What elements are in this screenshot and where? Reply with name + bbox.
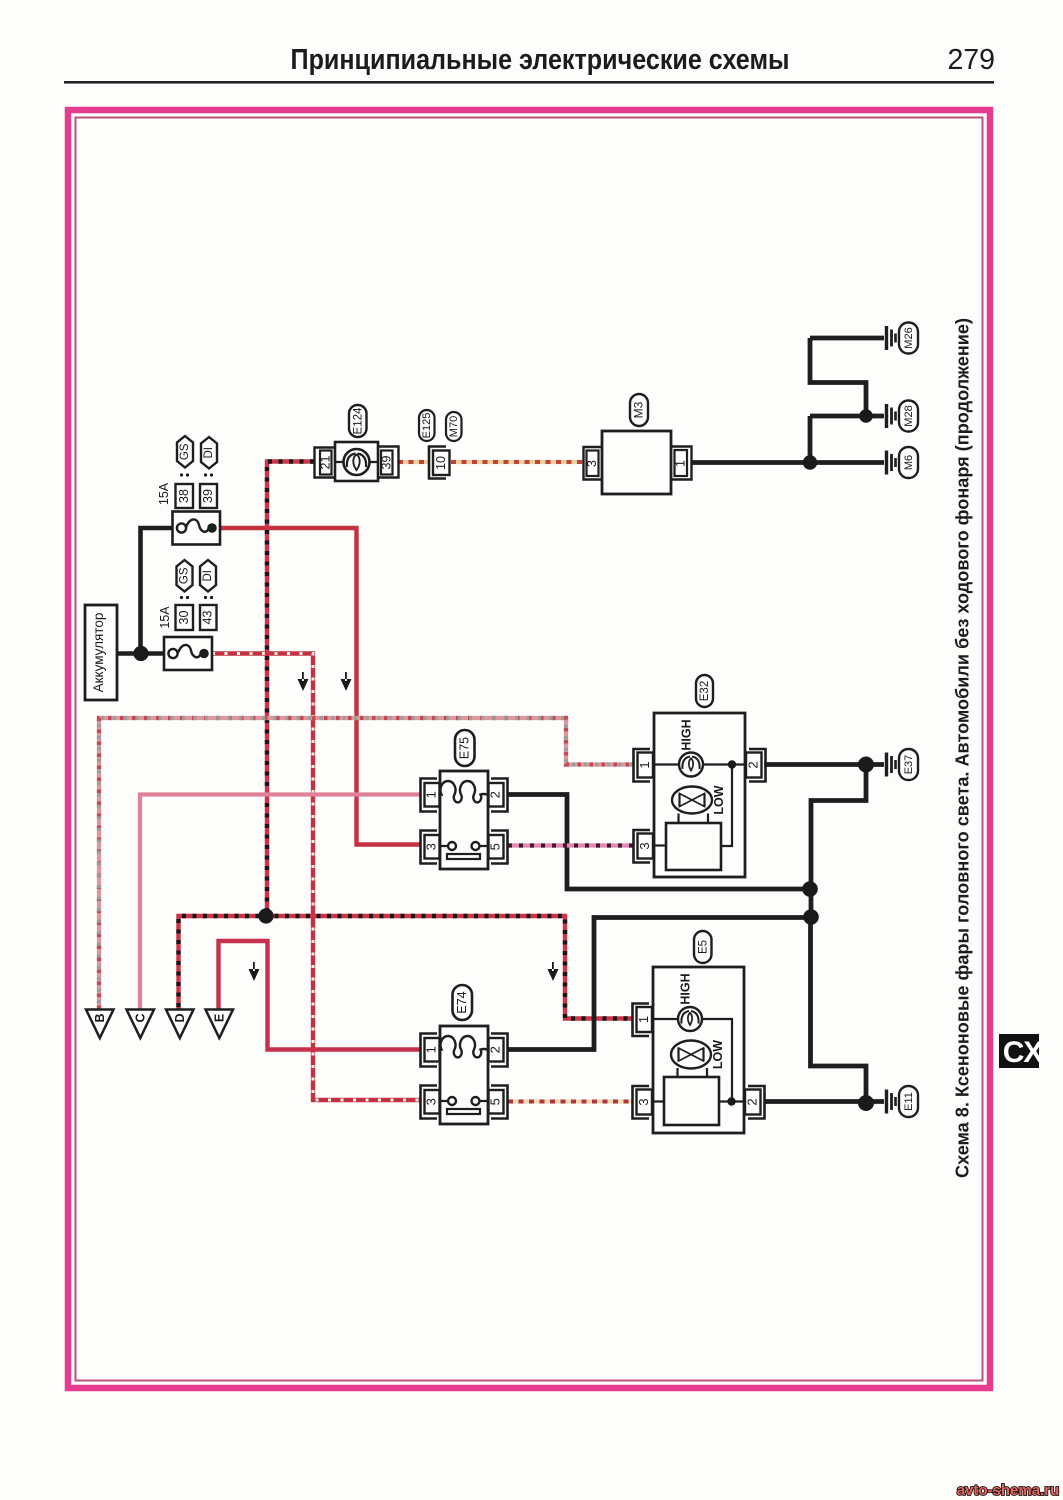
flow arrow down near arrow E wire — [249, 962, 260, 981]
label oval E5 — [694, 931, 712, 963]
svg-text:Принципиальные электрические с: Принципиальные электрические схемы — [291, 44, 790, 76]
ballast box E32 — [666, 823, 721, 870]
pin 2 (E5) — [744, 1086, 764, 1119]
svg-text:E32: E32 — [699, 681, 711, 701]
wire arrow C to E75 pin1 (pink) — [140, 795, 420, 1010]
svg-text:30: 30 — [177, 611, 191, 625]
svg-text:3: 3 — [424, 843, 439, 850]
HIGH bulb E32 — [679, 753, 703, 777]
svg-text:21: 21 — [318, 456, 332, 470]
svg-text:E124: E124 — [352, 407, 364, 434]
pin 3 (E5) — [633, 1086, 653, 1119]
svg-text:M28: M28 — [903, 405, 915, 426]
svg-text:Схема 8. Ксеноновые фары голов: Схема 8. Ксеноновые фары головного света… — [953, 318, 973, 1178]
pin 39 (E124) — [378, 447, 399, 478]
wire E124-39 to connector 10 to M3 pin3 (cream/red striped) — [398, 460, 583, 464]
svg-text:М6: М6 — [903, 455, 915, 470]
pin 1 (E75) — [421, 779, 440, 812]
hexagon DI (F2) — [200, 560, 216, 592]
pin 3 (E32) — [634, 830, 654, 863]
svg-text:LOW: LOW — [712, 785, 726, 814]
svg-text:E75: E75 — [457, 737, 471, 759]
wire E32 pin2 to ground E37 and down to junctions (black) — [764, 765, 884, 918]
svg-text:39: 39 — [379, 456, 393, 470]
pin 3 (M3) — [584, 447, 603, 480]
svg-text:1: 1 — [424, 1046, 439, 1053]
pin box 39 — [200, 484, 217, 508]
label oval E32 — [696, 675, 713, 707]
pin 1 (E5) — [633, 1004, 653, 1037]
label oval M3 — [630, 394, 648, 426]
wire relay E75 pin5 to E32 pin3 (pink/black striped) — [508, 843, 633, 847]
ground M26 — [887, 323, 919, 354]
wire fuse F2 output to relay E74 pin3 (red/white striped) — [212, 654, 420, 1101]
coil E75 — [441, 781, 488, 802]
junction dot E37 line — [858, 757, 874, 773]
hexagon DI (F1) — [201, 437, 217, 469]
ground M6 — [887, 447, 919, 478]
svg-text:1: 1 — [636, 1016, 651, 1023]
svg-text:М3: М3 — [632, 401, 646, 418]
svg-text:1: 1 — [424, 791, 439, 798]
ground M28 — [887, 401, 919, 432]
label oval E124 — [349, 405, 367, 437]
hexagon GS (F1) — [177, 436, 193, 468]
svg-text:3: 3 — [637, 842, 652, 849]
svg-text:M70: M70 — [448, 416, 460, 437]
svg-text:E37: E37 — [903, 755, 915, 775]
junction dot black upper — [802, 881, 818, 897]
svg-text:10: 10 — [434, 456, 448, 470]
internal junction dot E32 — [728, 760, 736, 768]
ground E11 — [887, 1086, 919, 1117]
label oval E75 — [455, 730, 475, 766]
flow arrow down near red wire — [341, 672, 352, 691]
LOW xenon bulb E32 — [672, 787, 712, 814]
pin 3 (E75) — [421, 831, 440, 864]
pin 2 (E32) — [745, 749, 765, 782]
svg-text:2: 2 — [745, 761, 760, 768]
svg-text:E11: E11 — [903, 1092, 915, 1111]
wire M3 pin1 to grounds M6 M28 M26 (black) — [691, 338, 884, 463]
pin 1 (E32) — [634, 749, 654, 782]
switch contacts E75 — [440, 845, 488, 847]
pin 3 (E74) — [421, 1086, 440, 1119]
svg-text:5: 5 — [488, 1098, 503, 1105]
LOW xenon bulb E5 — [671, 1041, 711, 1069]
svg-text:38: 38 — [177, 489, 191, 503]
svg-text:DI: DI — [202, 570, 214, 582]
wire battery to fuse F2 and up to fuse F1 (black) — [117, 528, 173, 655]
label oval E74 — [453, 985, 473, 1020]
terminal arrow C — [127, 1010, 155, 1039]
headlamp E5 — [653, 967, 744, 1133]
svg-text:E: E — [212, 1014, 226, 1022]
svg-text:C: C — [133, 1013, 147, 1022]
junction dot striped net — [258, 908, 273, 923]
pink outer frame — [68, 110, 990, 1388]
pin 21 (E124) — [315, 448, 336, 478]
pin box 43 — [200, 605, 217, 630]
wire relay E74 pin5 to E5 pin3 (cream/red striped) — [508, 1099, 633, 1103]
fuse F1 15A (38/39) — [173, 512, 221, 545]
svg-text:DI: DI — [203, 447, 215, 459]
svg-text:43: 43 — [200, 611, 214, 625]
connector 10 (E125/M70) — [429, 447, 450, 479]
label oval E125 — [419, 410, 435, 441]
flow arrow down near E5 pin1 wire — [548, 962, 559, 981]
wire relay E74 pin2 up to junction (black) — [508, 918, 811, 1050]
pin 5 (E75) — [488, 831, 508, 864]
svg-text:HIGH: HIGH — [678, 973, 692, 1004]
coil E74 — [441, 1036, 488, 1057]
svg-text:15A: 15A — [158, 606, 172, 629]
module M3 — [602, 431, 671, 494]
battery Аккумулятор — [85, 605, 117, 700]
pin 5 (E74) — [488, 1086, 508, 1119]
junction dot M6 line — [803, 455, 817, 469]
svg-text:39: 39 — [201, 489, 215, 503]
colon marks (F1) — [180, 473, 213, 476]
pin 1 (E74) — [421, 1034, 440, 1067]
svg-text:2: 2 — [744, 1098, 759, 1105]
svg-text:3: 3 — [636, 1098, 651, 1105]
HIGH bulb E5 — [678, 1007, 702, 1031]
svg-text:3: 3 — [424, 1098, 439, 1105]
svg-text:5: 5 — [488, 843, 503, 850]
pin 1 (M3) — [671, 447, 692, 480]
wire arrow E to E74 pin1 (red) — [219, 941, 421, 1050]
svg-text:GS: GS — [179, 567, 191, 584]
svg-text:15A: 15A — [157, 482, 171, 505]
internal junction dot E5 — [727, 1097, 735, 1105]
svg-text:B: B — [93, 1013, 107, 1022]
label oval M70 — [446, 412, 462, 441]
svg-text:E5: E5 — [697, 940, 709, 954]
svg-text:GS: GS — [179, 443, 191, 460]
svg-text:Аккумулятор: Аккумулятор — [91, 613, 106, 693]
svg-text:СХ: СХ — [1003, 1036, 1044, 1069]
relay E74 — [440, 1026, 488, 1124]
svg-text:HIGH: HIGH — [679, 719, 693, 750]
svg-text:avto-shema.ru: avto-shema.ru — [957, 1482, 1060, 1499]
wire relay E75 pin2 to ground junction (black) — [508, 795, 810, 890]
svg-text:1: 1 — [637, 761, 652, 768]
svg-text:3: 3 — [585, 460, 599, 467]
ground E37 — [887, 749, 919, 780]
pink inner frame line — [76, 118, 983, 1381]
lamp E124 — [335, 442, 378, 481]
hexagon GS (F2) — [177, 560, 193, 592]
pin 2 (E75) — [488, 779, 508, 812]
headlamp E32 — [654, 713, 745, 877]
wire node E124-21 / arrow D / E5 pin1 (red/black striped) — [179, 462, 634, 1019]
relay E75 — [440, 771, 488, 869]
switch contacts E74 — [440, 1100, 488, 1102]
junction dot E11 line — [858, 1095, 874, 1111]
wire arrow B to E32 pin1 (pink/grey striped) — [99, 718, 633, 1009]
fuse F2 15A (30/43) — [164, 637, 212, 670]
svg-text:2: 2 — [488, 1046, 503, 1053]
terminal arrow B — [86, 1010, 114, 1039]
ballast box E5 — [664, 1077, 719, 1125]
CX tab — [999, 1034, 1043, 1069]
wire E5 pin2 to ground E11 (black) — [764, 1099, 884, 1104]
svg-text:E125: E125 — [421, 413, 433, 439]
svg-text:279: 279 — [947, 44, 995, 76]
svg-text:D: D — [173, 1013, 187, 1022]
terminal arrow D — [166, 1010, 194, 1039]
pin box 38 — [176, 484, 194, 508]
pin 2 (E74) — [488, 1034, 508, 1067]
internal wiring E32 — [654, 763, 745, 765]
colon marks (F2) — [180, 596, 213, 599]
flow arrow down near fuse F2 wire — [249, 672, 559, 981]
header rule — [64, 81, 994, 84]
terminal arrow E — [206, 1010, 234, 1039]
pin box 30 — [176, 605, 194, 630]
junction dot battery — [133, 646, 148, 661]
junction dot M28 line — [859, 409, 873, 423]
svg-text:2: 2 — [488, 791, 503, 798]
wire junction down to ground E11 (black) — [811, 917, 867, 1103]
svg-text:1: 1 — [673, 460, 687, 467]
svg-text:E74: E74 — [455, 991, 469, 1013]
wire fuse F1 output to relay E75 pin3 (red) — [220, 528, 420, 845]
internal wiring E5 — [653, 1019, 732, 1102]
svg-text:M26: M26 — [903, 327, 915, 348]
svg-text:LOW: LOW — [711, 1040, 725, 1069]
junction dot black lower — [803, 909, 819, 925]
